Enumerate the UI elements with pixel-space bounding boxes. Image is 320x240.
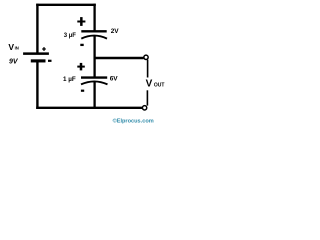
battery V1 long plate (+)	[23, 52, 49, 55]
svg-text:OUT: OUT	[154, 82, 165, 88]
C1 plus sign	[77, 17, 85, 26]
wire C1-C2 connector (C1 curved plate down to C2 plate, through mid node)	[93, 36, 95, 78]
battery V1 short plate (-)	[31, 59, 46, 62]
svg-text:2V: 2V	[111, 28, 120, 35]
svg-text:V: V	[8, 42, 14, 52]
C2 minus sign	[81, 90, 84, 92]
capacitor C2 straight plate	[81, 76, 107, 78]
wire left upper (top wire down to battery + plate)	[36, 4, 38, 54]
svg-text:©Elprocus.com: ©Elprocus.com	[113, 118, 154, 125]
wire C2 bottom lead (curved plate down to bottom wire)	[93, 82, 95, 109]
svg-text:IN: IN	[15, 46, 19, 51]
capacitor C1 straight plate	[81, 30, 106, 32]
svg-text:1 µF: 1 µF	[63, 76, 76, 83]
VOUT lower terminal circle	[142, 106, 146, 110]
wire bottom (left wire to VOUT lower terminal)	[36, 107, 142, 109]
capacitor C2 curved plate	[81, 81, 108, 84]
wire VOUT lower stub	[146, 90, 148, 105]
wire C1 top lead (top wire down to C1 plate)	[93, 4, 95, 32]
svg-text:3 µF: 3 µF	[64, 33, 76, 39]
wire left lower (battery - plate down to bottom wire)	[36, 61, 38, 109]
wire VOUT upper stub	[147, 60, 149, 78]
battery plus sign	[42, 47, 46, 51]
svg-text:V: V	[146, 79, 153, 90]
C1 minus sign	[80, 44, 83, 46]
svg-text:6V: 6V	[110, 75, 119, 82]
C2 plus sign	[77, 63, 85, 71]
wire top (from left wire to C1 drop)	[36, 4, 96, 6]
wire middle (mid node to VOUT upper terminal)	[95, 57, 144, 60]
svg-text:9V: 9V	[9, 59, 19, 66]
capacitor C1 curved plate	[81, 36, 107, 39]
battery minus sign	[48, 60, 52, 62]
VOUT upper terminal circle	[144, 55, 148, 59]
